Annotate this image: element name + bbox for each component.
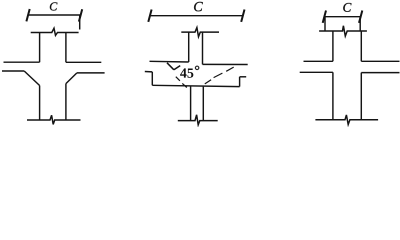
figure 2: slab top right line [203, 63, 248, 65]
figure 3: column lower right side [360, 73, 362, 120]
figure 2: label 45 degrees [180, 68, 187, 77]
figure 2: label C [194, 2, 203, 11]
figure 3: right witness stub [359, 17, 361, 31]
figure 2: angle arrow lower-right stroke [174, 66, 180, 70]
figure 2: drop panel right step [239, 77, 241, 87]
figure 3: dimension tick right [359, 11, 362, 23]
figure 3: column upper left side [332, 31, 334, 61]
figure 2: dimension tick left [148, 10, 151, 22]
figure 3: column upper right side [360, 31, 362, 61]
figure 1: column upper right side [65, 33, 67, 63]
figure 2: angle arrow upper-left stroke [167, 63, 174, 70]
figure 2: drop panel left step [151, 72, 153, 85]
figure 1: dimension line C [28, 14, 81, 16]
figure 3: left witness stub [324, 17, 326, 31]
figure 3: bottom break line with zigzag [315, 115, 378, 125]
figure 3: right beam top line [361, 60, 399, 62]
figure 1: column lower right side [65, 84, 67, 120]
figure 1: left 45-degree haunch diagonal [24, 71, 39, 86]
figure 2: drop panel bottom line [152, 85, 239, 86]
figure 2: column lower right side [202, 87, 204, 121]
figure 1: dimension tick right [79, 9, 82, 21]
figure 1: top break line with zigzag [31, 28, 79, 35]
figure 2: bottom break line with zigzag [178, 115, 218, 125]
figure 2: slab bottom left outer line [145, 71, 153, 73]
figure 1: left beam bottom line [2, 70, 24, 72]
figure 2: top break line with zigzag [181, 28, 219, 37]
figure 2: column lower left side [190, 86, 192, 120]
figure 3: left beam bottom line [300, 71, 333, 73]
figure 1: right beam bottom line [77, 72, 105, 74]
figure 1: column upper left side [39, 33, 41, 63]
figure 2: slab top left line [150, 60, 189, 63]
figure 2: column upper left side [188, 32, 190, 62]
figure 1: column lower left side [39, 86, 41, 121]
figure 1: right beam top line [66, 61, 101, 63]
figure 1: right witness line [79, 15, 81, 30]
figure 2: left 45-degree dashed line [176, 77, 187, 88]
figure 3: top break line with zigzag [319, 26, 367, 36]
figure 3: column lower left side [332, 72, 334, 120]
figure 3: left beam top line [304, 60, 333, 62]
figure 2: right 45-degree dashed line [205, 67, 234, 84]
figure 2: dimension tick right [241, 10, 244, 22]
figure 2: slab bottom right outer line [240, 76, 247, 78]
figure 1: bottom break line with zigzag [27, 115, 81, 124]
figure 1: left beam top line [4, 61, 40, 63]
figure 3: right beam bottom line [361, 72, 399, 74]
figure 1: dimension tick left [26, 9, 29, 21]
figure 2: column upper right side [202, 32, 204, 64]
figure 1: label C [50, 2, 57, 10]
figure 2: dimension line C [150, 15, 243, 17]
figure 3: label C [343, 3, 351, 12]
figure 1: right 45-degree haunch diagonal [66, 73, 77, 84]
figure 3: dimension line C [324, 16, 360, 18]
figure 3: dimension tick left [323, 11, 326, 23]
